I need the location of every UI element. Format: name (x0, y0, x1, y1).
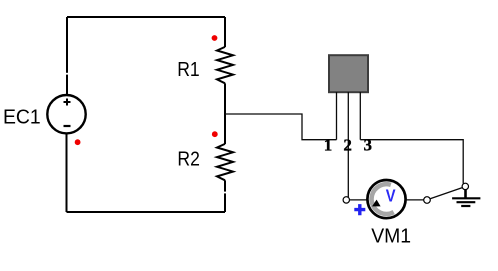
wire junction to R2 (224, 114, 226, 144)
wire gap artifact below R2 (224, 192, 227, 194)
pin 2 lead (347, 92, 349, 197)
node red dot at EC1 bottom (75, 139, 81, 145)
wire pin 3 to switch (360, 140, 463, 184)
needle arrowhead of VM1 (372, 200, 381, 207)
plus mark of VM1 (blue) (354, 204, 365, 215)
wire right upper (corner to R1) (224, 17, 226, 47)
wire gap artifact above EC1 (66, 73, 69, 75)
switch terminal left (424, 197, 431, 204)
node red dot at R2 top (212, 131, 218, 137)
voltage source EC1 (47, 95, 85, 133)
pin 1 lead (336, 92, 338, 140)
wire junction to pin 1 (225, 114, 337, 140)
plus mark of EC1 (64, 99, 71, 106)
svg-text:R2: R2 (177, 148, 199, 170)
wire left upper (corner to EC1 top) (66, 17, 68, 96)
terminal at VM1 left (343, 197, 349, 203)
svg-text:2: 2 (343, 135, 352, 154)
svg-text:V: V (386, 186, 396, 205)
wire terminal to VM1 (350, 199, 368, 201)
wire R2 bottom lead (224, 180, 226, 212)
wire top of loop (67, 16, 225, 18)
wire bottom of loop (67, 211, 226, 213)
resistor R1 (217, 47, 233, 83)
pin 3 lead (359, 92, 361, 140)
svg-text:VM1: VM1 (371, 225, 411, 247)
svg-text:EC1: EC1 (3, 106, 41, 128)
ground (452, 190, 480, 206)
IC box U1 (329, 55, 368, 92)
wire left lower (EC1 bottom to corner) (66, 133, 68, 212)
wire R1 bottom lead to junction (224, 83, 226, 114)
gray arc inside VM1 (372, 184, 394, 214)
switch terminal right (462, 183, 468, 189)
switch blade (430, 188, 462, 199)
voltmeter VM1 (367, 180, 405, 218)
svg-text:1: 1 (324, 135, 333, 154)
node red dot at R1 top (212, 35, 218, 41)
svg-text:3: 3 (364, 135, 373, 154)
wire VM1 right to switch terminal (406, 199, 424, 201)
minus mark of EC1 (64, 125, 71, 127)
resistor R2 (217, 144, 233, 180)
svg-text:R1: R1 (177, 58, 199, 80)
